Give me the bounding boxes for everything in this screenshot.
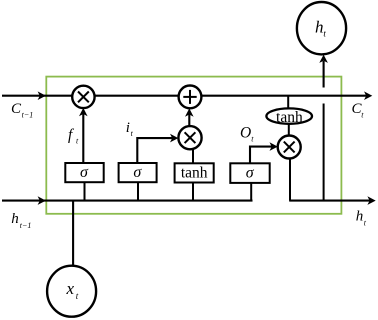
svg-text:t−1: t−1 <box>22 111 34 120</box>
svg-text:i: i <box>126 120 130 136</box>
svg-text:C: C <box>11 101 22 117</box>
svg-text:σ: σ <box>80 164 89 181</box>
svg-text:t: t <box>251 135 254 144</box>
svg-text:σ: σ <box>133 164 142 181</box>
svg-text:O: O <box>240 124 251 141</box>
svg-text:x: x <box>66 279 75 298</box>
svg-text:tanh: tanh <box>276 109 303 126</box>
svg-text:tanh: tanh <box>181 164 208 181</box>
svg-text:h: h <box>315 18 324 37</box>
svg-text:t: t <box>364 219 367 228</box>
svg-text:h: h <box>356 208 364 224</box>
svg-text:f: f <box>68 127 75 144</box>
svg-text:t−1: t−1 <box>20 221 32 230</box>
svg-text:t: t <box>131 129 134 138</box>
svg-text:h: h <box>11 211 19 227</box>
svg-text:t: t <box>361 111 364 120</box>
svg-text:t: t <box>76 137 79 146</box>
svg-text:σ: σ <box>246 164 255 181</box>
